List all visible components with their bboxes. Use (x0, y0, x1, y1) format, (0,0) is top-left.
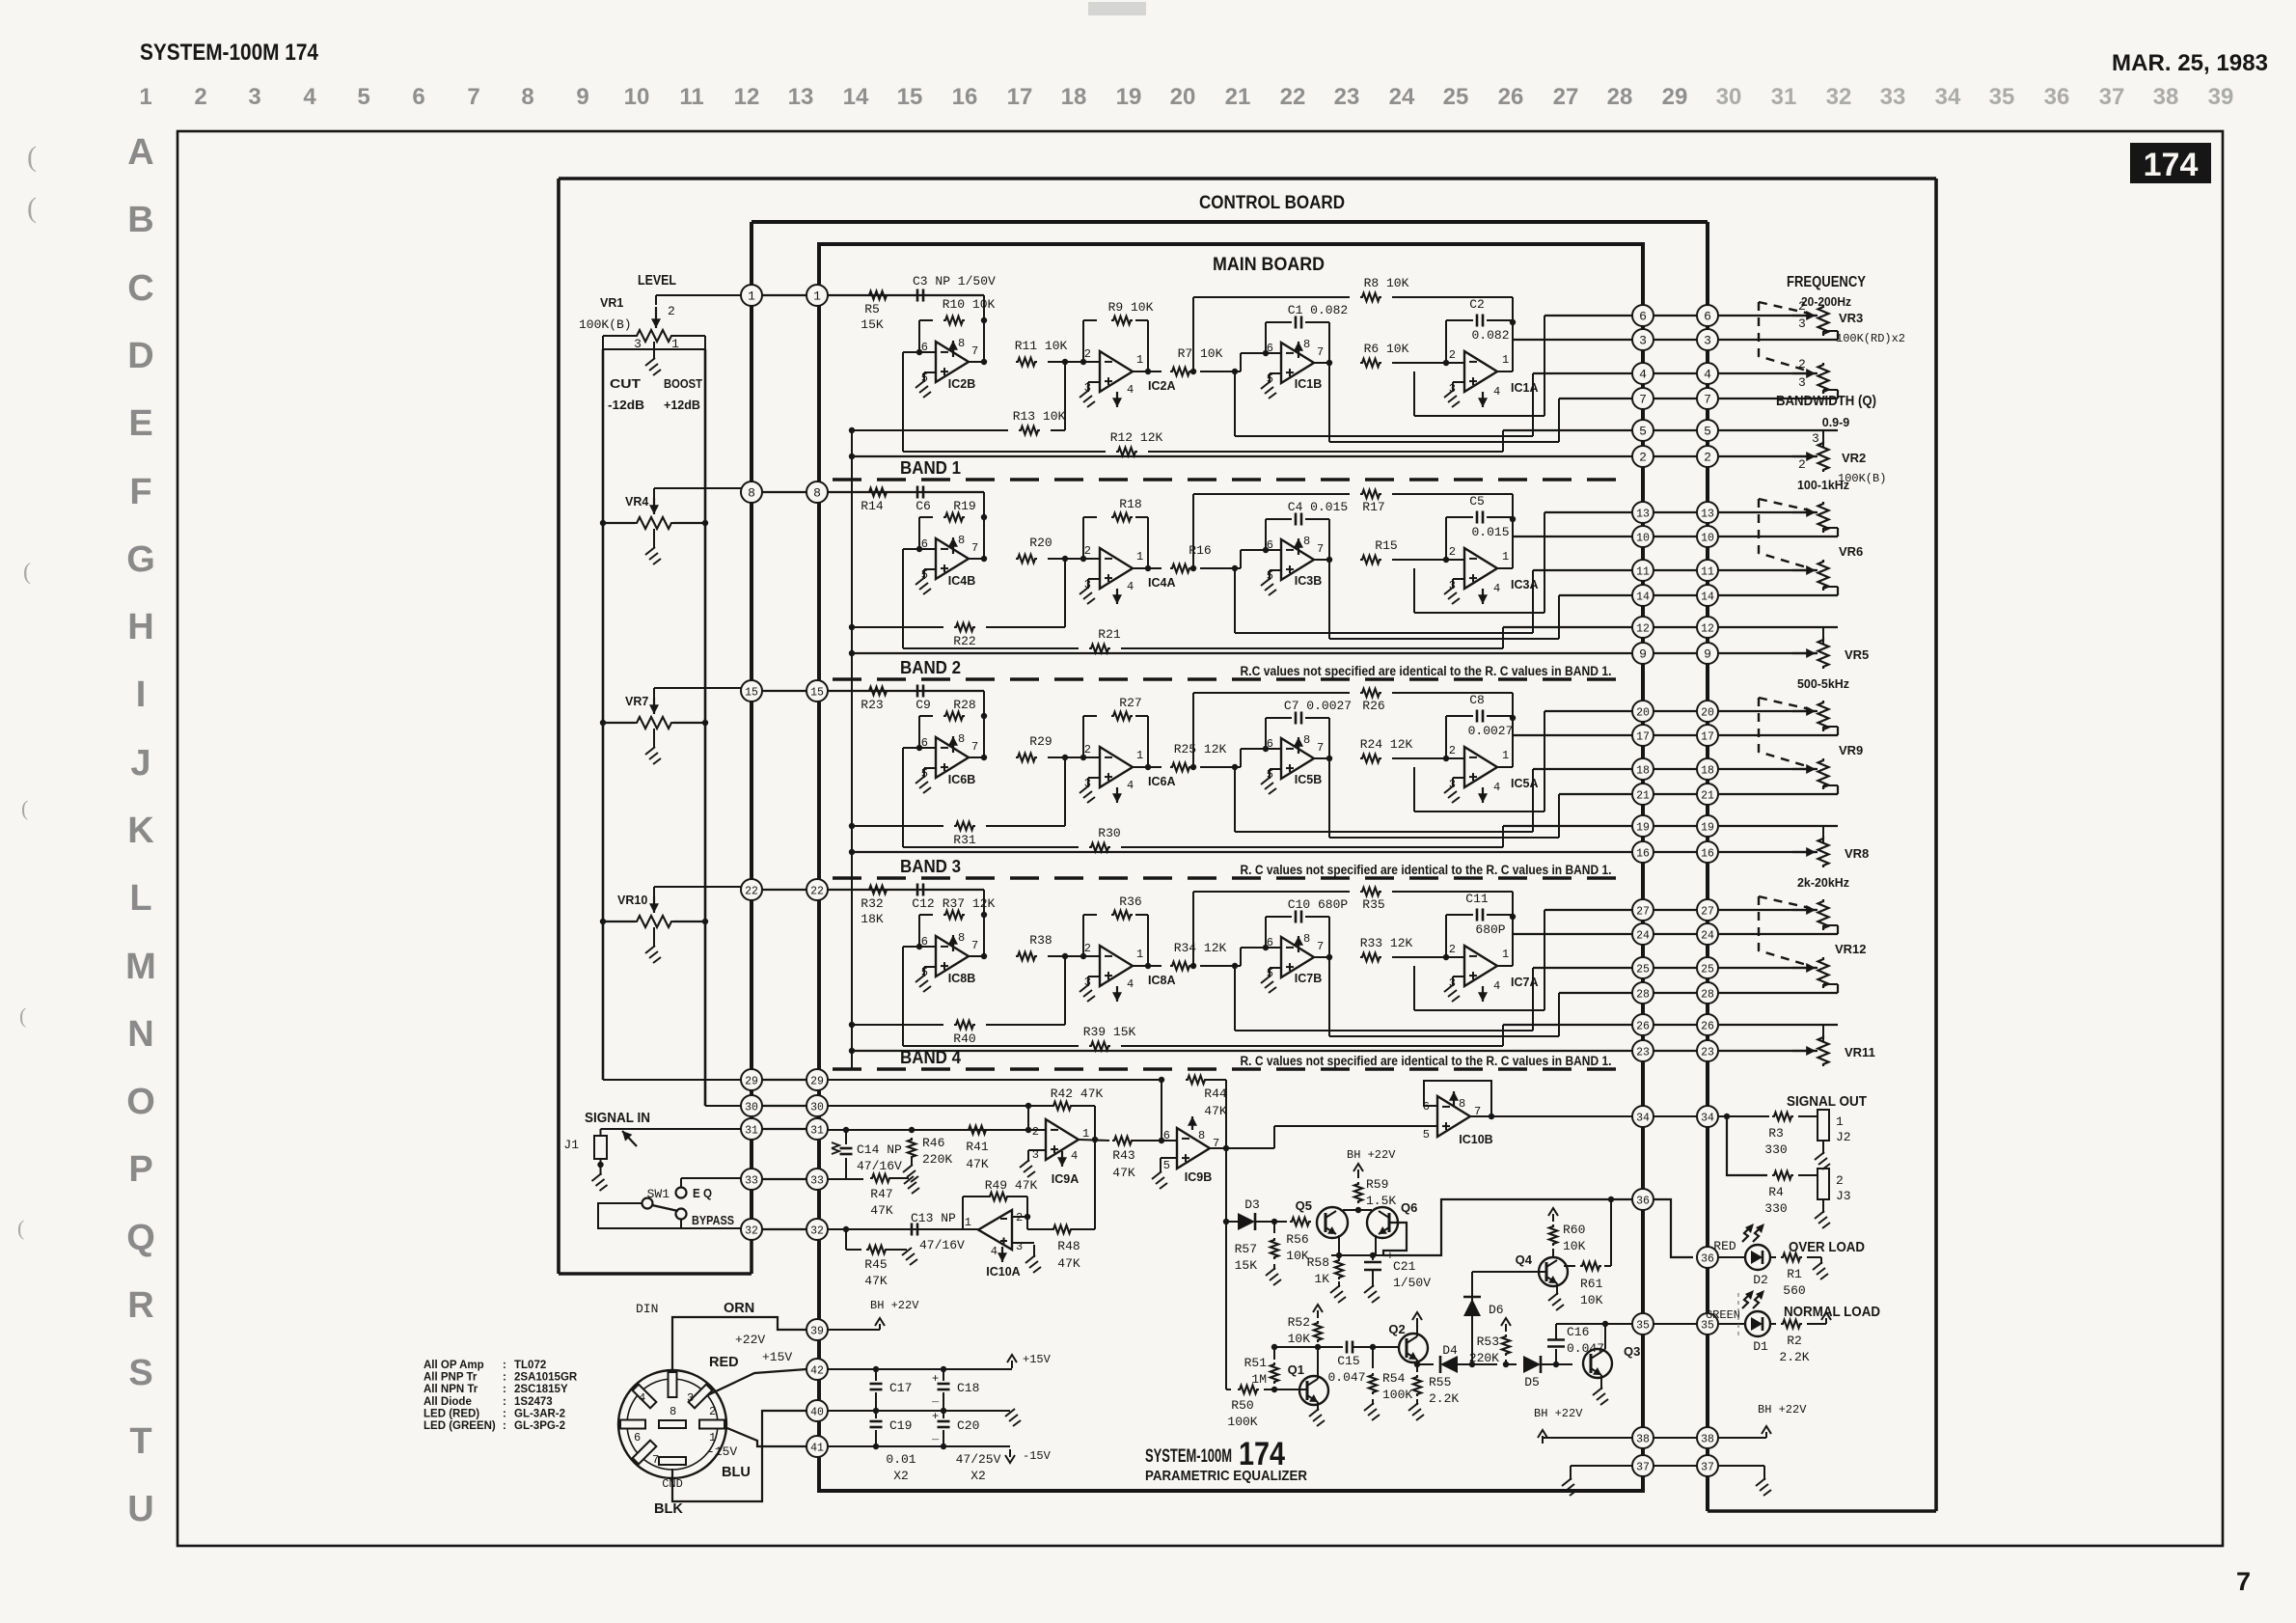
svg-text:J: J (130, 743, 150, 784)
svg-text:7: 7 (652, 1453, 659, 1467)
svg-text:26: 26 (1498, 84, 1524, 110)
svg-text:22: 22 (745, 886, 758, 898)
ground R54 (1364, 1403, 1374, 1411)
wire pin6 IC4B (919, 548, 936, 550)
svg-text:33: 33 (745, 1175, 758, 1188)
svg-text:1: 1 (1502, 749, 1509, 762)
svg-text:38: 38 (1701, 1434, 1714, 1446)
svg-text:2: 2 (1084, 347, 1091, 361)
svg-text:R14: R14 (861, 499, 884, 513)
svg-text:IC10B: IC10B (1459, 1133, 1492, 1146)
svg-text:(: ( (23, 560, 31, 585)
svg-text:Q1: Q1 (1288, 1362, 1304, 1377)
wire connector pair 32 (752, 1228, 817, 1230)
svg-text:7: 7 (467, 84, 479, 110)
svg-text::: : (503, 1384, 506, 1395)
wire 38 right to BH+22V (1718, 1437, 1766, 1439)
svg-text:C: C (127, 268, 153, 309)
capacitor C13 NP 47/16V (911, 1224, 914, 1236)
svg-text:(: ( (19, 1004, 26, 1028)
svg-text:R8 10K: R8 10K (1364, 276, 1409, 290)
svg-text:5: 5 (1639, 425, 1647, 439)
wire pin6 drop to R21 (903, 548, 919, 550)
capacitor C10 feedback amp3 (1265, 917, 1267, 948)
resistor R23 (867, 687, 888, 695)
svg-text:47/16V: 47/16V (919, 1238, 965, 1252)
svg-text:0.082: 0.082 (1471, 328, 1509, 343)
svg-text:4: 4 (1127, 383, 1134, 397)
resistor R9 10K feedback amp2 (1082, 320, 1084, 362)
svg-text:29: 29 (745, 1076, 758, 1088)
ground pin3 IC5A (1453, 777, 1464, 779)
connector 34 pair (1643, 1115, 1708, 1117)
wire band2 return row C (1533, 768, 1632, 770)
wire band0 input row (828, 294, 984, 296)
svg-text:39: 39 (2208, 84, 2234, 110)
svg-text:8: 8 (958, 732, 965, 746)
svg-text:R12 12K: R12 12K (1110, 430, 1163, 445)
svg-text:IC2B: IC2B (948, 377, 975, 391)
svg-text:24: 24 (1389, 84, 1415, 110)
wire 36 to LED D2 (1718, 1256, 1745, 1258)
svg-text:0.01: 0.01 (886, 1452, 916, 1467)
wire band0 return row F (852, 455, 1632, 457)
svg-text:23: 23 (1636, 1047, 1650, 1059)
connector 7 control board (1697, 388, 1718, 409)
svg-text:3: 3 (1704, 334, 1711, 348)
wire connector pair row 10 (1643, 536, 1708, 537)
svg-text:6: 6 (1267, 936, 1273, 949)
resistor R30 lower feedback 2 (903, 846, 1079, 848)
capacitor C1 feedback amp3 (1265, 322, 1267, 353)
connector 41 (806, 1436, 828, 1457)
svg-text:34: 34 (1701, 1113, 1714, 1125)
svg-text:R10 10K: R10 10K (943, 297, 996, 312)
resistor R33 12K (1360, 953, 1381, 961)
svg-text:4: 4 (1071, 1149, 1078, 1163)
svg-text:21: 21 (1701, 790, 1714, 803)
svg-text:24: 24 (1636, 930, 1650, 943)
svg-text:R56: R56 (1286, 1232, 1308, 1247)
svg-text:BAND 4: BAND 4 (900, 1048, 961, 1067)
connector 20 main board (1632, 701, 1654, 722)
svg-text:2: 2 (1084, 544, 1091, 558)
svg-text:BANDWIDTH (Q): BANDWIDTH (Q) (1776, 393, 1876, 409)
svg-text:R48: R48 (1057, 1239, 1080, 1253)
connector 30 main board (806, 1095, 828, 1116)
svg-text:+12dB: +12dB (664, 398, 700, 412)
svg-text:C2: C2 (1469, 297, 1485, 312)
svg-text:R21: R21 (1098, 627, 1121, 642)
svg-text:R45: R45 (864, 1257, 887, 1272)
ground pin5 IC6B (924, 767, 936, 769)
svg-text:37: 37 (2099, 84, 2125, 110)
wire VR10 wiper to connector 22 (653, 887, 655, 898)
wire pin6 IC8B (919, 946, 936, 948)
svg-text:(: ( (21, 796, 28, 820)
svg-text:174: 174 (2144, 147, 2199, 183)
svg-text::: : (503, 1408, 506, 1419)
resistor R5 (867, 291, 888, 299)
svg-text:16: 16 (1701, 848, 1714, 861)
connector 33 control board (741, 1169, 762, 1190)
ground Q3 emitter (1600, 1375, 1602, 1389)
capacitor C2 feedback amp4 (1445, 320, 1447, 363)
resistor R7 10K (1170, 368, 1191, 375)
svg-text:R44: R44 (1204, 1087, 1227, 1101)
svg-text:D5: D5 (1524, 1375, 1540, 1389)
wire band2 return row A (1544, 710, 1632, 712)
wire D6 to Q4 base (1472, 1271, 1546, 1273)
svg-text:VR4: VR4 (625, 495, 648, 509)
connector 16 main board (1632, 841, 1654, 863)
connector 42 (806, 1359, 828, 1380)
svg-text:29: 29 (1662, 84, 1688, 110)
svg-text:R15: R15 (1375, 538, 1397, 553)
ground pin3 IC9A (1028, 1149, 1046, 1151)
svg-text:R6 10K: R6 10K (1364, 342, 1409, 356)
wire band3 return row C (1533, 967, 1632, 969)
svg-text:R20: R20 (1029, 536, 1052, 550)
connector 16 control board (1697, 841, 1718, 863)
wire pin6 drop to R12 12K (903, 351, 919, 353)
svg-text:J3: J3 (1836, 1189, 1851, 1203)
svg-text:1: 1 (1082, 1127, 1089, 1141)
wire Q2 collector supply (1416, 1320, 1418, 1336)
svg-text:2: 2 (1449, 545, 1456, 559)
svg-text:3: 3 (1798, 316, 1806, 331)
wire node to pin2 IC4A (1048, 558, 1100, 560)
svg-text:10: 10 (1636, 533, 1650, 545)
connector 27 control board (1697, 899, 1718, 921)
connector 26 control board (1697, 1014, 1718, 1035)
svg-text:LEVEL: LEVEL (638, 272, 676, 289)
resistor R25 12K (1170, 763, 1191, 771)
ground R45 (902, 1248, 912, 1255)
svg-text:8: 8 (521, 84, 533, 110)
MAIN BOARD outline (819, 244, 1643, 1491)
svg-text:R11 10K: R11 10K (1015, 339, 1068, 353)
svg-text:R31: R31 (953, 833, 976, 847)
svg-text:4: 4 (1493, 582, 1500, 595)
svg-text:20-200Hz: 20-200Hz (1801, 295, 1851, 309)
wire node to pin2 IC2A (1048, 361, 1100, 363)
ground pin5 IC8B (924, 966, 936, 968)
connector 22 control board (741, 879, 762, 900)
svg-text:+: + (932, 1372, 939, 1386)
resistor R17 top feedback (1193, 493, 1350, 495)
wire pin6 IC2B (919, 351, 936, 353)
svg-text:IC4A: IC4A (1148, 576, 1175, 590)
svg-text:R5: R5 (864, 302, 880, 316)
svg-text:37: 37 (1636, 1462, 1650, 1474)
svg-text:1: 1 (139, 84, 151, 110)
wire node to pin2 IC8A (1048, 955, 1100, 957)
diode D5 (1506, 1363, 1517, 1365)
svg-text:32: 32 (745, 1225, 758, 1238)
wire VR4 wiper to connector 8 (653, 488, 655, 500)
svg-text:1: 1 (1136, 948, 1143, 961)
connector 6 control board (1697, 305, 1718, 326)
wire IC5B output node (1314, 757, 1329, 759)
svg-text:R: R (127, 1285, 153, 1326)
svg-text:1: 1 (1502, 550, 1509, 564)
svg-text:GREEN: GREEN (1706, 1308, 1740, 1322)
op-amp IC8A (1100, 946, 1133, 986)
svg-text:34: 34 (1935, 84, 1961, 110)
svg-text:IC3B: IC3B (1295, 574, 1322, 588)
svg-text:S: S (128, 1353, 152, 1393)
svg-text:4: 4 (1493, 781, 1500, 794)
resistor R58 1K (1335, 1258, 1343, 1279)
resistor R22 lower feedback 1 (852, 626, 943, 628)
svg-text:C3 NP 1/50V: C3 NP 1/50V (913, 274, 996, 289)
ground pin3 IC2A (1088, 381, 1100, 383)
svg-text:8: 8 (1303, 733, 1310, 747)
svg-text:23: 23 (1334, 84, 1360, 110)
wire connector pair 1 (752, 294, 817, 296)
resistor R21 lower feedback 2 (903, 647, 1079, 649)
svg-text:OVER LOAD: OVER LOAD (1789, 1239, 1865, 1255)
svg-text:7: 7 (971, 541, 978, 555)
wire to pin2 IC3A (1392, 559, 1464, 561)
ground R46 (903, 1165, 913, 1172)
resistor R41 47K (967, 1126, 988, 1134)
connector 2 main board (1632, 446, 1654, 467)
svg-text:RED: RED (1713, 1239, 1736, 1253)
svg-text:0.0027: 0.0027 (1468, 724, 1514, 738)
wire connector pair row 28 (1643, 992, 1708, 994)
svg-text:2: 2 (1798, 357, 1806, 371)
svg-text:IC1A: IC1A (1511, 381, 1538, 395)
svg-text:7: 7 (971, 939, 978, 952)
svg-text:8: 8 (958, 931, 965, 945)
wire IC4A output (1133, 567, 1162, 569)
svg-text:D3: D3 (1244, 1197, 1260, 1212)
wire amp1 feedback left leg (919, 914, 933, 916)
svg-text::: : (503, 1420, 506, 1432)
svg-text:(: ( (27, 141, 37, 173)
wire connector 33 row (828, 1178, 863, 1180)
svg-text:1M: 1M (1251, 1372, 1267, 1387)
svg-text:E: E (128, 403, 152, 444)
connector 15 control board (741, 680, 762, 701)
svg-text:2.2K: 2.2K (1429, 1391, 1459, 1406)
wire VR1 wiper to connector 1 (656, 294, 741, 296)
resistor R14 (867, 488, 888, 496)
connector 12 control board (1697, 617, 1718, 638)
ground R55 (1408, 1403, 1418, 1411)
svg-text:25: 25 (1443, 84, 1469, 110)
ground VR10 (653, 927, 655, 947)
wire connector 37 left to ground (1571, 1465, 1632, 1467)
svg-text:C19: C19 (889, 1418, 912, 1433)
svg-text:R34 12K: R34 12K (1174, 941, 1227, 955)
resistor R60 10K (1549, 1224, 1557, 1246)
wire connector 40 right rail (828, 1410, 1003, 1412)
svg-text:100K: 100K (1227, 1415, 1257, 1429)
svg-text:14: 14 (1636, 591, 1650, 604)
wire connector pair row 24 (1643, 933, 1708, 935)
op-amp IC3B (1281, 539, 1314, 580)
svg-text:47K: 47K (1204, 1104, 1227, 1118)
connector 29 control board (741, 1069, 762, 1090)
svg-text:2SA1015GR: 2SA1015GR (514, 1372, 578, 1384)
connector 5 main board (1632, 420, 1654, 441)
supply arrow R2 (1825, 1320, 1827, 1324)
svg-text:16: 16 (952, 84, 978, 110)
svg-text:R43: R43 (1112, 1148, 1134, 1163)
svg-text:All PNP Tr: All PNP Tr (424, 1372, 478, 1384)
svg-text:D6: D6 (1489, 1303, 1504, 1317)
svg-text:28: 28 (1607, 84, 1633, 110)
svg-text:2: 2 (709, 1405, 716, 1418)
svg-text:CUT: CUT (610, 376, 641, 391)
connector 14 control board (1697, 585, 1718, 606)
svg-text:36: 36 (2044, 84, 2070, 110)
resistor R15 (1360, 556, 1381, 564)
svg-text:ORN: ORN (724, 1301, 754, 1316)
ground J2 (1822, 1141, 1824, 1154)
wire band0 return row E (1503, 429, 1632, 431)
svg-text:39: 39 (810, 1326, 824, 1338)
svg-text:IC9B: IC9B (1185, 1170, 1212, 1184)
svg-text:C8: C8 (1469, 693, 1485, 707)
op-amp IC10B (1437, 1096, 1470, 1137)
wire DIN pin3 to connector 39 (ORN) (672, 1317, 806, 1370)
svg-text:13: 13 (788, 84, 814, 110)
svg-text:O: O (126, 1082, 155, 1122)
svg-text:6: 6 (634, 1431, 641, 1444)
wire band3 input row (828, 889, 984, 891)
svg-text:C20: C20 (957, 1418, 979, 1433)
svg-text:2k-20kHz: 2k-20kHz (1797, 876, 1849, 890)
resistor R28 feedback amp1 (943, 712, 965, 720)
potentiometer VR5 (1822, 627, 1824, 645)
potentiometer pair VR3 wiper arrows (1792, 315, 1816, 316)
svg-text:7: 7 (1317, 940, 1324, 953)
svg-text:12: 12 (734, 84, 760, 110)
ground VR1 (653, 342, 655, 359)
wire IC7B output node (1314, 956, 1329, 958)
svg-text:19: 19 (1116, 84, 1142, 110)
resistor R43 47K (1112, 1137, 1134, 1144)
capacitor input band0 (916, 289, 919, 302)
svg-text:DIN: DIN (636, 1302, 658, 1316)
wire band1 input row (828, 491, 984, 493)
wire DIN pin2 to connector 42 (RED) (701, 1369, 806, 1398)
svg-text:12: 12 (1701, 623, 1714, 636)
wire amp4 C2 node vertical (1512, 915, 1514, 966)
resistor R4 330 (1772, 1171, 1793, 1179)
svg-text:2: 2 (1449, 348, 1456, 362)
svg-text:330: 330 (1764, 1142, 1787, 1157)
svg-text:1/50V: 1/50V (1393, 1276, 1431, 1290)
svg-text:8: 8 (813, 486, 821, 501)
resistor R16 (1170, 564, 1191, 572)
svg-text:R.C values not specified are i: R.C values not specified are identical t… (1241, 664, 1612, 678)
svg-text:1K: 1K (1314, 1272, 1329, 1286)
svg-text:35: 35 (1636, 1320, 1650, 1333)
connector 2 control board (1697, 446, 1718, 467)
svg-text:47K: 47K (966, 1157, 989, 1171)
svg-text:5: 5 (357, 84, 369, 110)
dashed separator BAND 1 (833, 478, 1625, 481)
svg-text:31: 31 (810, 1125, 824, 1138)
feedback bus vertical x=883 (851, 430, 853, 1070)
svg-text:47/25V: 47/25V (956, 1452, 1001, 1467)
wire amp1 output leg (983, 320, 985, 362)
capacitor C14 NP 47/16V (845, 1130, 847, 1144)
resistor R49 47K feedback IC10A (962, 1197, 964, 1229)
wire connector 30 row to R42 (828, 1105, 1052, 1107)
svg-text:R4: R4 (1768, 1185, 1784, 1199)
svg-text:4: 4 (1127, 779, 1134, 792)
svg-text:T: T (129, 1421, 151, 1462)
resistor R55 2.2K (1413, 1375, 1421, 1396)
svg-text:R60: R60 (1563, 1223, 1585, 1237)
svg-text:R25 12K: R25 12K (1174, 742, 1227, 756)
resistor R61 10K (1564, 1265, 1575, 1267)
svg-text:3: 3 (1639, 334, 1647, 348)
wire pin6 drop to R39 15K (903, 946, 919, 948)
capacitor C19 (875, 1411, 877, 1418)
svg-text:R9 10K: R9 10K (1108, 300, 1154, 315)
svg-text:18: 18 (1701, 765, 1714, 778)
connector 33 main board (806, 1169, 828, 1190)
wire VR4 terminals to rails (603, 522, 635, 524)
wire connector pair 15 (752, 690, 817, 692)
wire IC10B feedback loop (1424, 1081, 1491, 1116)
wire band2 input row (828, 690, 984, 692)
svg-text:R51: R51 (1244, 1356, 1268, 1370)
svg-text:BYPASS: BYPASS (692, 1213, 734, 1227)
potentiometer pair VR6 wiper arrows (1792, 511, 1816, 513)
svg-text:C4 0.015: C4 0.015 (1288, 500, 1348, 514)
connector 20 control board (1697, 701, 1718, 722)
svg-text:R61: R61 (1580, 1277, 1603, 1291)
svg-text:LED (RED): LED (RED) (424, 1408, 479, 1419)
svg-text::: : (503, 1372, 506, 1384)
svg-text:C16: C16 (1567, 1325, 1589, 1339)
wire band0 return row C (1533, 372, 1632, 374)
svg-text:VR7: VR7 (625, 695, 648, 708)
svg-text:20: 20 (1701, 707, 1714, 720)
svg-text:5: 5 (1423, 1128, 1430, 1142)
svg-text:4: 4 (1127, 580, 1134, 593)
gang dashed link VR9 (1759, 698, 1810, 767)
ground C21 (1364, 1285, 1374, 1293)
connector 7 main board (1632, 388, 1654, 409)
wire amp4 C2 node vertical (1512, 716, 1514, 767)
svg-text:BH +22V: BH +22V (1534, 1407, 1583, 1420)
svg-text:25: 25 (1701, 964, 1714, 977)
wire to pin2 IC7A (1392, 956, 1464, 958)
svg-text:_: _ (931, 1391, 940, 1405)
op-amp IC7A (1464, 946, 1497, 986)
wire amp4 C2 node vertical (1512, 320, 1514, 371)
potentiometer VR11 (1822, 1025, 1824, 1042)
svg-text:R53: R53 (1477, 1334, 1499, 1349)
resistor R10 10K feedback amp1 (943, 316, 965, 324)
svg-text:C14 NP: C14 NP (857, 1142, 902, 1157)
ground pin5 IC4B (924, 568, 936, 570)
connector 27 main board (1632, 899, 1654, 921)
svg-text:R16: R16 (1189, 543, 1211, 558)
svg-text:47K: 47K (864, 1274, 888, 1288)
gang dashed link VR3 (1759, 302, 1810, 371)
svg-text:30: 30 (1716, 84, 1742, 110)
